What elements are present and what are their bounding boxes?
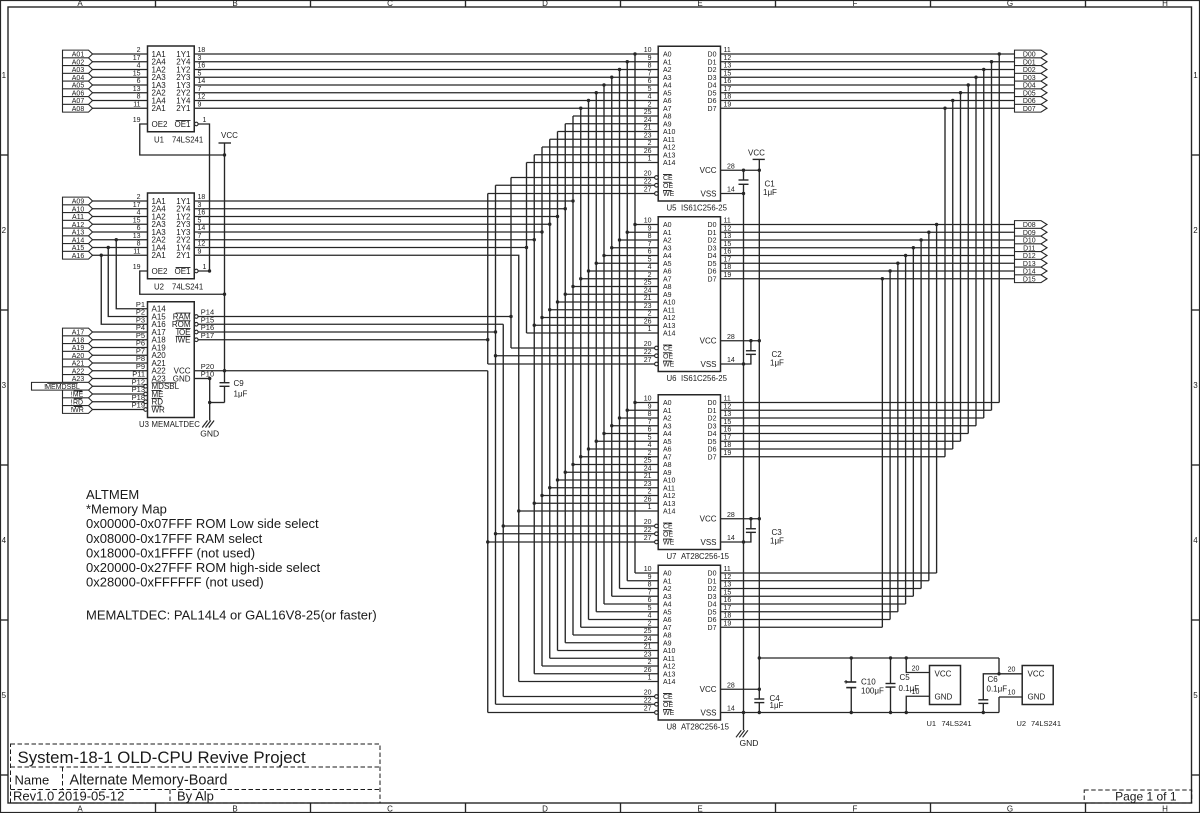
wire net D02: U5.D2 to connector D02 and U7.D2 <box>721 68 1015 418</box>
svg-text:0x28000-0xFFFFFF (not used): 0x28000-0xFFFFFF (not used) <box>86 575 264 590</box>
connector D14 <box>1015 267 1048 275</box>
svg-text:C9: C9 <box>234 379 245 388</box>
svg-text:VCC: VCC <box>700 337 717 346</box>
svg-text:OE: OE <box>663 353 673 360</box>
svg-text:1: 1 <box>203 117 207 124</box>
svg-text:A: A <box>77 0 83 8</box>
svg-text:D4: D4 <box>708 253 717 260</box>
svg-text:IWE: IWE <box>175 336 190 345</box>
svg-text:GND: GND <box>1028 693 1046 702</box>
connector D13 <box>1015 259 1048 267</box>
svg-text:26: 26 <box>644 667 652 674</box>
svg-text:E: E <box>697 0 702 8</box>
svg-text:VSS: VSS <box>700 189 716 198</box>
svg-text:8: 8 <box>137 241 141 248</box>
svg-text:A8: A8 <box>663 462 672 469</box>
svg-text:WE: WE <box>663 710 675 717</box>
svg-text:3: 3 <box>198 202 202 209</box>
wire net IWE: U3.P17 to U5/U6 WE <box>198 194 654 365</box>
power symbol VCC (right) <box>748 149 765 160</box>
svg-text:27: 27 <box>644 187 652 194</box>
svg-text:10: 10 <box>644 566 652 573</box>
connector D03 <box>1015 73 1048 81</box>
wire net D05: U5.D5 to connector D05 and U7.D5 <box>721 91 1015 441</box>
svg-text:5: 5 <box>198 217 202 224</box>
wire GND rail <box>721 192 746 731</box>
svg-text:GND: GND <box>935 693 953 702</box>
svg-text:A6: A6 <box>663 617 672 624</box>
svg-text:15: 15 <box>724 241 732 248</box>
wire GND bottom rail to power blocks <box>721 697 1000 714</box>
capacitor C10 100uF <box>844 658 884 713</box>
svg-text:15: 15 <box>133 70 141 77</box>
svg-text:8: 8 <box>648 411 652 418</box>
svg-text:A9: A9 <box>663 121 672 128</box>
svg-text:OE: OE <box>663 183 673 190</box>
power symbol VCC (left) <box>219 131 239 371</box>
svg-text:6: 6 <box>648 249 652 256</box>
svg-text:2: 2 <box>648 101 652 108</box>
connector A04 <box>63 73 93 81</box>
svg-text:10: 10 <box>912 689 920 696</box>
svg-text:10: 10 <box>644 47 652 54</box>
svg-text:24: 24 <box>644 465 652 472</box>
svg-text:28: 28 <box>727 682 735 689</box>
connector D08 <box>1015 221 1048 229</box>
wire net D06: U5.D6 to connector D06 and U7.D6 <box>721 99 1015 449</box>
wires input connectors A01-A08 to U1 <box>93 54 148 108</box>
svg-text:A4: A4 <box>663 253 672 260</box>
svg-text:D5: D5 <box>708 609 717 616</box>
svg-text:8: 8 <box>648 582 652 589</box>
ground symbol GND (U3) <box>200 421 219 439</box>
svg-text:3: 3 <box>2 381 7 390</box>
wire net IOE: U3.P16 to U5/U6/U7/U8 OE <box>198 185 654 704</box>
svg-text:D6: D6 <box>708 617 717 624</box>
svg-text:A3: A3 <box>663 423 672 430</box>
wire net A3: U1 output to U5.A3 with bus taps to U6/U7/U8 <box>194 76 658 597</box>
wire net A1: U1 output to U5.A1 with bus taps to U6/U7/U8 <box>194 60 658 581</box>
svg-text:ALTMEM: ALTMEM <box>86 487 139 502</box>
svg-text:5: 5 <box>648 434 652 441</box>
wire net D14: U6.D6 to connector D14 and U8.D6 <box>721 269 1015 619</box>
svg-text:24: 24 <box>644 636 652 643</box>
svg-text:19: 19 <box>133 117 141 124</box>
svg-text:*Memory Map: *Memory Map <box>86 502 167 517</box>
svg-text:H: H <box>1162 0 1168 8</box>
svg-text:A11: A11 <box>663 137 675 144</box>
connector !RD <box>63 398 93 406</box>
svg-text:13: 13 <box>724 63 732 70</box>
wire net A14: U2 output to memory A14 bus <box>194 163 658 334</box>
svg-text:A9: A9 <box>663 292 672 299</box>
svg-text:1: 1 <box>648 326 652 333</box>
svg-text:A12: A12 <box>663 145 676 152</box>
svg-text:A7: A7 <box>663 625 672 632</box>
svg-text:17: 17 <box>724 256 732 263</box>
svg-text:11: 11 <box>724 396 731 403</box>
svg-text:A0: A0 <box>663 52 672 59</box>
wires input connectors A09-A16 to U2 <box>93 201 148 255</box>
svg-text:GND: GND <box>740 738 759 748</box>
svg-text:1: 1 <box>203 264 207 271</box>
svg-text:19: 19 <box>724 620 732 627</box>
svg-text:A3: A3 <box>663 245 672 252</box>
svg-text:!: ! <box>70 407 72 414</box>
svg-text:18: 18 <box>724 442 732 449</box>
svg-text:17: 17 <box>724 86 732 93</box>
wire net A11: U2 output to memory A11 bus <box>194 139 658 658</box>
svg-text:2: 2 <box>648 272 652 279</box>
svg-text:0x00000-0x07FFF ROM Low side: 0x00000-0x07FFF ROM Low side select <box>86 516 319 531</box>
svg-text:0.1μF: 0.1μF <box>987 685 1008 694</box>
wire net D03: U5.D3 to connector D03 and U7.D3 <box>721 76 1015 426</box>
svg-text:11: 11 <box>724 566 731 573</box>
svg-text:13: 13 <box>724 582 732 589</box>
svg-text:1: 1 <box>648 675 652 682</box>
svg-text:11: 11 <box>133 101 140 108</box>
svg-text:U3: U3 <box>139 420 149 429</box>
svg-text:74LS241: 74LS241 <box>172 136 203 145</box>
svg-text:U7: U7 <box>667 552 677 561</box>
svg-text:17: 17 <box>724 434 732 441</box>
svg-text:13: 13 <box>724 411 732 418</box>
svg-text:D2: D2 <box>708 416 717 423</box>
svg-text:D6: D6 <box>708 447 717 454</box>
wire net D10: U6.D2 to connector D10 and U8.D2 <box>721 238 1015 588</box>
svg-text:E: E <box>697 805 702 813</box>
wires input connectors A17-A23, !MEMDSBL, !ME, !RD, !WR to U3 <box>93 332 148 410</box>
svg-text:6: 6 <box>648 427 652 434</box>
svg-text:10: 10 <box>644 396 652 403</box>
svg-text:2: 2 <box>1193 226 1198 235</box>
svg-text:2A1: 2A1 <box>152 251 167 260</box>
svg-text:2Y1: 2Y1 <box>176 251 191 260</box>
svg-text:9: 9 <box>648 225 652 232</box>
wire net A2: U1 output to U5.A2 with bus taps to U6/U7/U8 <box>194 68 658 589</box>
connector A03 <box>63 66 93 74</box>
svg-text:17: 17 <box>724 605 732 612</box>
svg-text:A5: A5 <box>663 261 672 268</box>
svg-text:25: 25 <box>644 280 652 287</box>
power block U1 74LS241 <box>906 658 971 728</box>
svg-text:5: 5 <box>648 256 652 263</box>
wire U2 OE2 to VCC chain <box>140 271 226 296</box>
svg-text:4: 4 <box>648 613 652 620</box>
svg-text:D3: D3 <box>708 423 717 430</box>
svg-text:6: 6 <box>648 78 652 85</box>
svg-text:13: 13 <box>724 233 732 240</box>
wire U1 OE1 to U2 OE1 <box>198 124 211 273</box>
svg-text:0x18000-0x1FFFF (not used): 0x18000-0x1FFFF (not used) <box>86 545 255 560</box>
connector D11 <box>1015 244 1048 252</box>
connector A08 <box>63 104 93 112</box>
svg-text:19: 19 <box>724 101 732 108</box>
capacitor C3 1uF <box>744 517 785 545</box>
svg-text:15: 15 <box>724 419 732 426</box>
wire A15 tap to U3 P2 <box>107 246 148 317</box>
svg-text:1μF: 1μF <box>234 390 248 399</box>
svg-text:D0: D0 <box>708 400 717 407</box>
svg-text:VCC: VCC <box>935 670 952 679</box>
svg-text:VCC: VCC <box>748 149 765 158</box>
connector D00 <box>1015 50 1048 58</box>
svg-text:21: 21 <box>644 473 652 480</box>
svg-text:1μF: 1μF <box>770 701 784 710</box>
connector D07 <box>1015 104 1048 112</box>
svg-text:VSS: VSS <box>700 360 716 369</box>
svg-text:IS61C256-25: IS61C256-25 <box>681 374 728 383</box>
svg-text:A14: A14 <box>663 331 676 338</box>
svg-text:A2: A2 <box>663 67 672 74</box>
decoder U3 MEMALTDEC <box>132 300 215 429</box>
svg-text:21: 21 <box>644 644 652 651</box>
svg-text:D5: D5 <box>708 261 717 268</box>
wire net RAM: U3.P14 to U5/U6 CE <box>198 178 654 349</box>
svg-text:D7: D7 <box>708 625 717 632</box>
svg-text:A11: A11 <box>663 656 675 663</box>
svg-text:26: 26 <box>644 496 652 503</box>
svg-text:74LS241: 74LS241 <box>1031 719 1061 728</box>
wire net A13: U2 output to memory A13 bus <box>194 155 658 674</box>
svg-text:7: 7 <box>648 419 652 426</box>
svg-text:WE: WE <box>663 191 675 198</box>
svg-text:Name: Name <box>15 773 50 788</box>
page number box <box>1084 790 1192 804</box>
svg-text:6: 6 <box>648 597 652 604</box>
svg-text:GND: GND <box>173 374 191 383</box>
svg-text:D7: D7 <box>708 454 717 461</box>
svg-text:OE: OE <box>663 531 673 538</box>
svg-text:23: 23 <box>644 132 652 139</box>
svg-text:G: G <box>1007 0 1013 8</box>
connector A20 <box>63 351 93 359</box>
svg-text:A5: A5 <box>663 609 672 616</box>
svg-text:18: 18 <box>724 94 732 101</box>
svg-text:2: 2 <box>648 659 652 666</box>
svg-text:A2: A2 <box>663 416 672 423</box>
svg-text:D0: D0 <box>708 222 717 229</box>
connector A05 <box>63 81 93 89</box>
svg-text:C: C <box>387 0 393 8</box>
svg-text:WR: WR <box>72 407 84 414</box>
svg-text:A6: A6 <box>663 447 672 454</box>
svg-text:D4: D4 <box>708 602 717 609</box>
svg-text:B: B <box>232 805 237 813</box>
svg-text:A4: A4 <box>663 602 672 609</box>
svg-text:11: 11 <box>724 218 731 225</box>
svg-text:A7: A7 <box>663 276 672 283</box>
svg-text:A12: A12 <box>663 493 676 500</box>
svg-text:18: 18 <box>724 264 732 271</box>
svg-text:D3: D3 <box>708 75 717 82</box>
svg-text:U8: U8 <box>667 723 677 732</box>
svg-text:D1: D1 <box>708 408 717 415</box>
connector D04 <box>1015 81 1048 89</box>
svg-text:7: 7 <box>648 70 652 77</box>
svg-text:D4: D4 <box>708 83 717 90</box>
svg-text:4: 4 <box>648 442 652 449</box>
svg-text:27: 27 <box>644 706 652 713</box>
svg-text:28: 28 <box>727 512 735 519</box>
svg-text:4: 4 <box>648 94 652 101</box>
svg-text:VCC: VCC <box>221 131 238 140</box>
svg-text:24: 24 <box>644 287 652 294</box>
svg-text:CE: CE <box>663 694 673 701</box>
svg-text:23: 23 <box>644 651 652 658</box>
svg-text:A7: A7 <box>663 454 672 461</box>
buffer U1 74LS241 <box>133 46 207 145</box>
svg-text:22: 22 <box>644 349 652 356</box>
svg-text:WE: WE <box>663 362 675 369</box>
svg-text:4: 4 <box>648 264 652 271</box>
connector A12 <box>63 220 93 228</box>
svg-text:D: D <box>542 805 548 813</box>
capacitor C1 1uF <box>739 169 778 197</box>
svg-text:D3: D3 <box>708 245 717 252</box>
svg-text:25: 25 <box>644 458 652 465</box>
svg-text:U1: U1 <box>927 719 937 728</box>
connector !WR <box>63 406 93 414</box>
svg-text:A13: A13 <box>663 501 676 508</box>
svg-text:A8: A8 <box>663 633 672 640</box>
svg-text:A5: A5 <box>663 90 672 97</box>
svg-text:A13: A13 <box>663 671 676 678</box>
wire net D08: U6.D0 to connector D08 and U8.D0 <box>721 223 1015 573</box>
wire net D13: U6.D5 to connector D13 and U8.D5 <box>721 262 1015 612</box>
svg-text:A4: A4 <box>663 431 672 438</box>
svg-text:D2: D2 <box>708 586 717 593</box>
svg-text:A4: A4 <box>663 83 672 90</box>
svg-text:D1: D1 <box>708 230 717 237</box>
connector D02 <box>1015 66 1048 74</box>
svg-text:D4: D4 <box>708 431 717 438</box>
svg-text:A14: A14 <box>663 679 676 686</box>
svg-text:F: F <box>853 0 858 8</box>
connector A15 <box>63 244 93 252</box>
svg-text:14: 14 <box>727 706 735 713</box>
connector A17 <box>63 328 93 336</box>
svg-text:OE1: OE1 <box>174 120 191 129</box>
svg-text:A12: A12 <box>663 315 676 322</box>
svg-text:16: 16 <box>198 63 206 70</box>
svg-text:A6: A6 <box>663 269 672 276</box>
svg-text:20: 20 <box>1008 667 1016 674</box>
svg-text:7: 7 <box>648 241 652 248</box>
svg-text:16: 16 <box>724 427 732 434</box>
svg-text:28: 28 <box>727 163 735 170</box>
capacitor C5 0.1uF <box>886 658 920 713</box>
svg-text:19: 19 <box>724 272 732 279</box>
svg-text:D7: D7 <box>708 276 717 283</box>
svg-text:2Y1: 2Y1 <box>176 104 191 113</box>
connector A16 <box>63 251 93 259</box>
svg-text:8: 8 <box>137 94 141 101</box>
ground symbol GND (bottom) <box>736 730 758 748</box>
svg-text:12: 12 <box>198 94 206 101</box>
memory chip U7 AT28C256-15 <box>644 395 735 561</box>
svg-text:A6: A6 <box>663 98 672 105</box>
memory chip U6 IS61C256-25 <box>644 217 735 383</box>
wire net D15: U6.D7 to connector D15 and U8.D7 <box>721 277 1015 627</box>
svg-text:A9: A9 <box>663 640 672 647</box>
connector D05 <box>1015 89 1048 97</box>
svg-text:26: 26 <box>644 318 652 325</box>
svg-text:A08: A08 <box>72 106 85 113</box>
svg-text:A0: A0 <box>663 400 672 407</box>
connector A23 <box>63 375 93 383</box>
svg-text:13: 13 <box>133 233 141 240</box>
svg-text:16: 16 <box>724 78 732 85</box>
grid column letters bottom <box>77 805 1168 813</box>
connector D12 <box>1015 252 1048 260</box>
wire net A9: U2 output to memory A9 bus <box>194 124 658 643</box>
svg-text:U5: U5 <box>667 204 678 213</box>
svg-text:U6: U6 <box>667 374 677 383</box>
svg-text:AT28C256-15: AT28C256-15 <box>681 552 730 561</box>
svg-text:7: 7 <box>198 233 202 240</box>
svg-text:23: 23 <box>644 481 652 488</box>
svg-text:5: 5 <box>198 70 202 77</box>
svg-text:25: 25 <box>644 628 652 635</box>
svg-text:9: 9 <box>648 574 652 581</box>
connector A14 <box>63 236 93 244</box>
svg-text:14: 14 <box>198 225 206 232</box>
svg-text:10: 10 <box>644 218 652 225</box>
svg-text:11: 11 <box>724 47 731 54</box>
svg-text:H: H <box>1162 805 1168 813</box>
memory chip U5 IS61C256-25 <box>644 46 735 212</box>
svg-text:A0: A0 <box>663 222 672 229</box>
svg-text:15: 15 <box>724 70 732 77</box>
svg-text:A1: A1 <box>663 408 672 415</box>
svg-text:A1: A1 <box>663 59 672 66</box>
svg-text:2: 2 <box>2 226 7 235</box>
svg-text:10: 10 <box>1008 690 1016 697</box>
connector A13 <box>63 228 93 236</box>
svg-text:12: 12 <box>198 241 206 248</box>
svg-text:VSS: VSS <box>700 708 716 717</box>
svg-text:MEMALTDEC: MEMALTDEC <box>152 420 201 429</box>
grid row numbers left <box>2 71 7 700</box>
connector A07 <box>63 97 93 105</box>
svg-text:A16: A16 <box>72 253 85 260</box>
svg-text:A14: A14 <box>663 509 676 516</box>
svg-text:U2: U2 <box>154 283 164 292</box>
wire VCC top rail to power blocks <box>759 656 1000 675</box>
svg-text:CE: CE <box>663 524 673 531</box>
svg-text:A10: A10 <box>663 648 676 655</box>
svg-text:20: 20 <box>644 341 652 348</box>
svg-text:1: 1 <box>1193 71 1198 80</box>
svg-text:D: D <box>542 0 548 8</box>
svg-text:D07: D07 <box>1023 106 1036 113</box>
wire U1 OE2 to VCC chain <box>140 124 226 157</box>
connector D10 <box>1015 236 1048 244</box>
svg-text:0x08000-0x17FFF RAM select: 0x08000-0x17FFF RAM select <box>86 531 263 546</box>
connector A18 <box>63 336 93 344</box>
svg-text:VSS: VSS <box>700 538 716 547</box>
svg-text:17: 17 <box>133 202 141 209</box>
svg-text:5: 5 <box>2 691 7 700</box>
grid column letters top <box>77 0 1168 8</box>
svg-text:18: 18 <box>724 613 732 620</box>
title block <box>11 744 381 804</box>
svg-text:WR: WR <box>152 405 166 414</box>
grid row numbers right <box>1193 71 1198 700</box>
svg-text:19: 19 <box>133 264 141 271</box>
svg-text:A2: A2 <box>663 238 672 245</box>
